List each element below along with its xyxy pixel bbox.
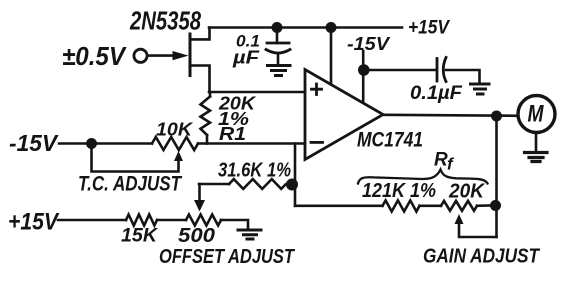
resistor 31.6K	[229, 179, 289, 189]
svg-text:+15V: +15V	[408, 18, 450, 39]
potentiometer 500	[186, 215, 221, 226]
capacitor C1 top plate	[267, 42, 289, 45]
gain wiper arrowhead	[455, 214, 464, 224]
op-amp plus sign	[312, 84, 322, 95]
ground C1	[268, 66, 291, 76]
wire offset to 31.6K	[199, 183, 229, 186]
wire 10K to inverting input	[198, 142, 305, 145]
svg-text:-15V: -15V	[347, 33, 391, 54]
offset wiper arrowhead	[194, 200, 205, 212]
wire output node to gain node	[495, 116, 498, 237]
brace Rf	[358, 170, 488, 184]
capacitor C1 0.1uF lead	[276, 28, 279, 44]
wire drain lead	[190, 28, 210, 40]
svg-text:0.1µF: 0.1µF	[410, 83, 463, 104]
resistor 121K	[383, 200, 420, 211]
wire -15V to 10K	[59, 142, 152, 145]
svg-text:M: M	[528, 101, 545, 128]
resistor 15K	[126, 215, 157, 226]
svg-text:-15V: -15V	[9, 130, 59, 156]
resistor 10K	[152, 137, 198, 150]
wire source lead	[190, 66, 210, 93]
wire motor to ground	[535, 133, 538, 153]
svg-text:T.C. ADJUST: T.C. ADJUST	[78, 173, 183, 196]
transistor Q1 2N5358 channel bar	[189, 34, 192, 76]
svg-text:31.6K 1%: 31.6K 1%	[218, 160, 291, 182]
svg-text:MC1741: MC1741	[357, 128, 423, 152]
capacitor C2 curved plate	[443, 58, 446, 82]
node dot output	[491, 111, 502, 122]
svg-text:20K: 20K	[448, 181, 485, 203]
ground C2	[471, 84, 490, 94]
svg-text:10K: 10K	[156, 119, 194, 140]
resistor R1 20K lead top	[209, 92, 212, 97]
ground offset	[238, 230, 261, 239]
node dot V-	[358, 64, 370, 76]
wire 15K to 500	[157, 219, 186, 222]
svg-text:µF: µF	[232, 47, 260, 68]
node dot top rail cap	[272, 22, 283, 33]
wire output	[383, 115, 518, 116]
wire +15V to 15K	[58, 219, 126, 222]
gate arrowhead	[173, 51, 189, 60]
capacitor C2 left plate	[436, 59, 439, 82]
wire 20K to node	[477, 204, 491, 207]
wire V- supply	[362, 51, 365, 101]
svg-text:121K 1%: 121K 1%	[362, 180, 436, 202]
wire C1 to ground	[277, 54, 280, 65]
wire V+ supply	[330, 28, 333, 85]
svg-text:GAIN ADJUST: GAIN ADJUST	[423, 246, 541, 268]
svg-text:2N5358: 2N5358	[129, 6, 201, 36]
wire TC wiper loop	[92, 144, 179, 172]
node dot gain	[490, 200, 501, 211]
motor M1 circle	[518, 96, 555, 133]
ground motor	[525, 153, 548, 162]
op-amp minus sign	[311, 141, 323, 144]
op-amp U1 triangle	[305, 70, 383, 160]
svg-text:R: R	[434, 150, 448, 171]
TC wiper arrowhead	[174, 151, 183, 161]
svg-text:OFFSET ADJUST: OFFSET ADJUST	[159, 246, 295, 268]
wire 500 to ground	[221, 220, 248, 229]
wire offset wiper shaft	[198, 184, 201, 201]
svg-text:±0.5V: ±0.5V	[62, 41, 127, 71]
input terminal circle	[134, 49, 147, 62]
node dot TC	[86, 138, 97, 149]
wire top rail to +15V	[209, 26, 402, 29]
svg-text:f: f	[447, 155, 455, 174]
wire between feedback resistors	[420, 205, 442, 208]
wire feedback down and across	[295, 205, 383, 208]
svg-text:R1: R1	[219, 123, 246, 144]
svg-text:+15V: +15V	[8, 209, 60, 236]
resistor R1 lead bottom	[206, 135, 209, 144]
potentiometer 20K gain	[441, 201, 477, 211]
node dot top rail V+	[326, 22, 337, 33]
wire V- to C2	[364, 69, 436, 72]
resistor R1 20K 1%	[201, 97, 211, 136]
wire inverting link down	[294, 144, 297, 206]
wire noninverting input	[209, 91, 305, 94]
wire gate lead	[148, 54, 177, 57]
svg-text:500: 500	[178, 225, 215, 247]
wire gain wiper return	[459, 224, 497, 237]
node dot summing	[286, 179, 298, 191]
capacitor C1 curved plate	[266, 50, 290, 54]
svg-text:15K: 15K	[121, 226, 158, 247]
wire C2 to ground	[446, 70, 480, 83]
